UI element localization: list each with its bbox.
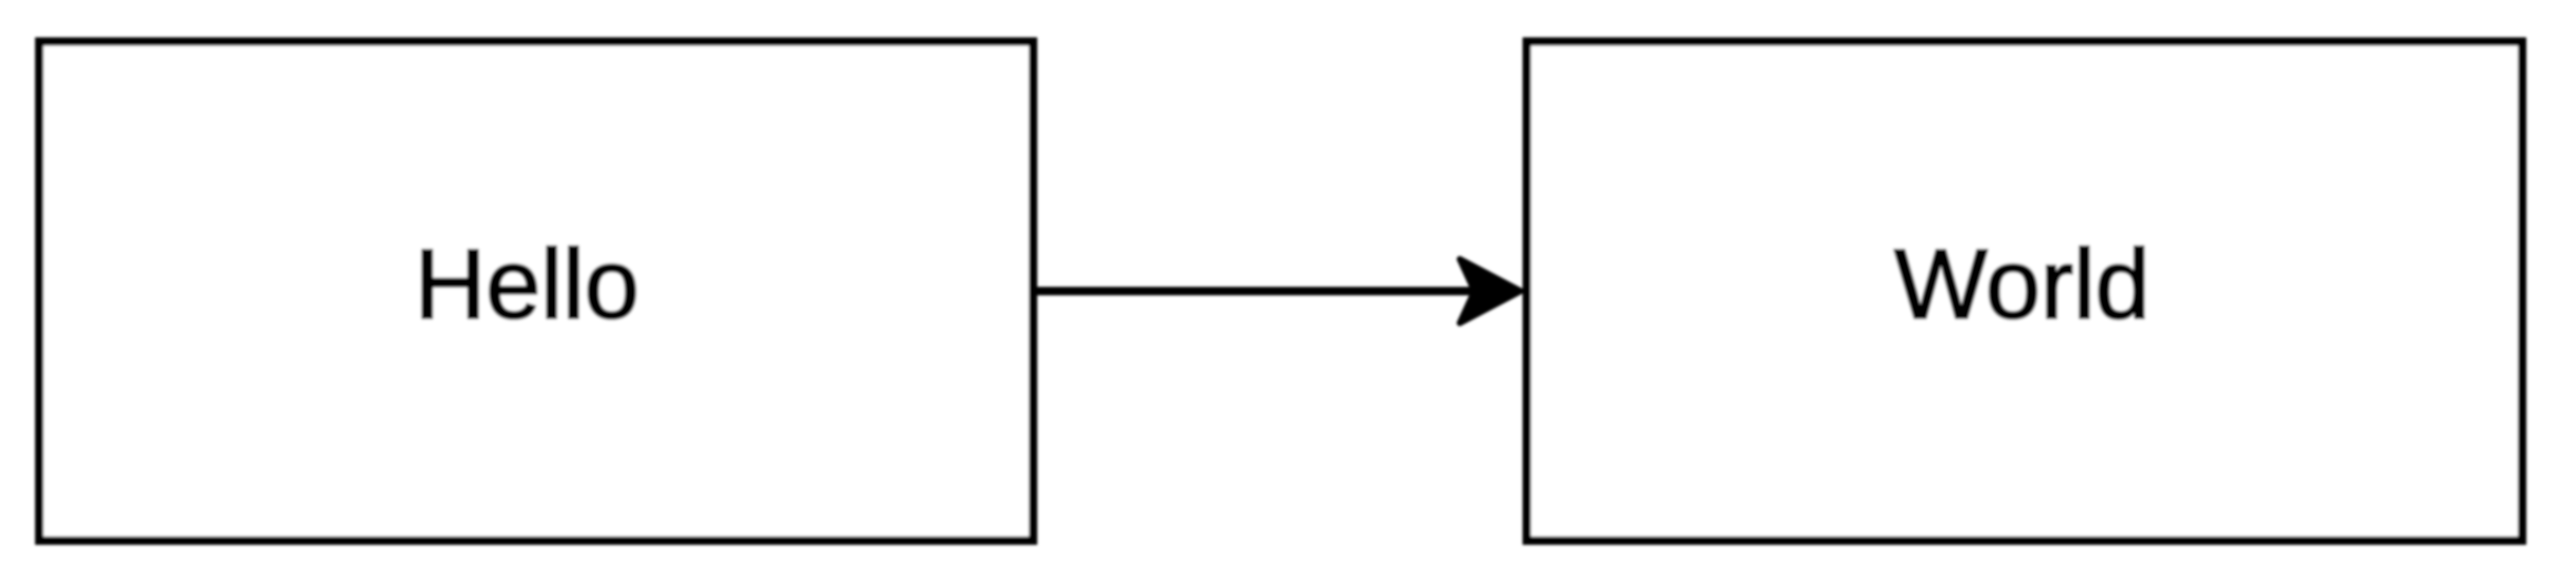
node Hello (rectangle) xyxy=(39,42,1033,541)
node World (rectangle) xyxy=(1527,42,2522,541)
wire Hello to World xyxy=(1037,287,1487,296)
svg-text:World: World xyxy=(1894,229,2150,340)
arrowhead (classic) at World end xyxy=(1460,260,1521,323)
svg-text:Hello: Hello xyxy=(414,229,639,340)
